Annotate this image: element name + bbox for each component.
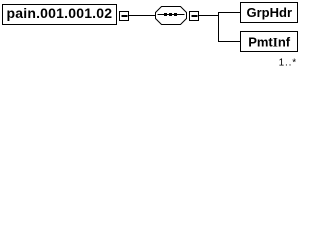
wire: parent handle to sequence xyxy=(129,15,156,17)
expand handle of pain.001.001.02 xyxy=(120,12,129,21)
element box GrpHdr xyxy=(241,3,298,23)
sequence inner line xyxy=(158,14,185,16)
sequence compositor octagon xyxy=(156,7,187,25)
wire: stub to GrpHdr xyxy=(219,12,241,14)
sequence dots xyxy=(164,13,177,16)
svg-text:GrpHdr: GrpHdr xyxy=(247,5,293,20)
wire: stub to PmtInf xyxy=(219,41,241,43)
collapse handle of sequence xyxy=(190,12,199,21)
wire: vertical trunk xyxy=(218,12,220,42)
svg-text:1..*: 1..* xyxy=(279,58,297,69)
svg-text:pain.001.001.02: pain.001.001.02 xyxy=(7,5,113,21)
svg-text:PmtInf: PmtInf xyxy=(248,34,291,49)
handle minus dash (sequence) xyxy=(192,15,198,17)
wire: sequence handle to trunk xyxy=(199,15,220,17)
element box PmtInf xyxy=(241,32,298,52)
handle minus dash (parent) xyxy=(122,15,128,17)
element box pain.001.001.02 xyxy=(3,5,117,25)
